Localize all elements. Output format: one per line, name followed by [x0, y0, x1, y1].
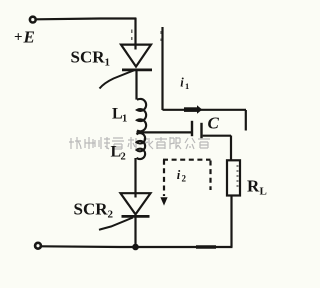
wire: L2 to SCR2: [134, 158, 136, 198]
wire: bottom horizontal rail: [42, 245, 233, 248]
svg-text:i: i: [180, 75, 184, 89]
terminal - (bottom left): [35, 243, 41, 249]
svg-text:SCR: SCR: [74, 200, 109, 219]
current arrow i2 (down): [160, 197, 167, 205]
svg-text:2: 2: [182, 174, 187, 184]
inductor L1: [137, 99, 146, 131]
svg-text:i: i: [177, 168, 181, 182]
dashed loop i2: top edge: [163, 159, 211, 161]
wire: right branch vertical from top: [161, 27, 163, 110]
svg-text:R: R: [247, 176, 260, 195]
scan speck marks: [131, 30, 133, 41]
resistor RL box: [227, 160, 240, 195]
svg-text:1: 1: [185, 81, 189, 91]
watermark 杭州将睿科技有限公司: [69, 137, 210, 149]
wire: tap between L1 and L2 to capacitor: [137, 131, 192, 133]
resistor RL inner ticks: [237, 166, 239, 186]
wire: RL bottom to rail: [230, 196, 232, 248]
capacitor C right plate: [200, 123, 202, 138]
wire: C right plate to RL branch: [203, 135, 231, 137]
wire: SCR2 cathode to bottom rail: [134, 217, 136, 247]
current arrow i1 (on wire): [184, 105, 202, 114]
svg-text:L: L: [260, 186, 267, 198]
wire: right corner down (hanging end): [245, 110, 247, 131]
svg-text:C: C: [208, 114, 220, 133]
terminal + (top left): [30, 17, 36, 23]
capacitor C left plate: [191, 121, 193, 136]
svg-text:2: 2: [108, 209, 114, 221]
thyristor SCR1: [100, 45, 153, 89]
wire: SCR1 anode vertical: [134, 18, 136, 50]
wire: down to RL top: [230, 136, 232, 161]
svg-text:SCR: SCR: [71, 48, 106, 67]
junction node (bottom of SCR2): [132, 244, 139, 251]
svg-text:+: +: [14, 30, 23, 46]
dashed loop i2: right edge: [209, 161, 211, 191]
wire: i1 horizontal run: [163, 109, 247, 111]
dashed loop i2: left edge: [163, 160, 165, 196]
svg-text:2: 2: [121, 152, 126, 163]
svg-text:1: 1: [105, 57, 111, 69]
thyristor SCR2: [99, 193, 151, 230]
inductor L2: [137, 133, 146, 159]
svg-text:E: E: [23, 28, 35, 47]
svg-text:1: 1: [122, 114, 127, 125]
wire: top horizontal from + terminal: [37, 17, 136, 20]
wire: SCR1 cathode to L1: [135, 71, 137, 100]
